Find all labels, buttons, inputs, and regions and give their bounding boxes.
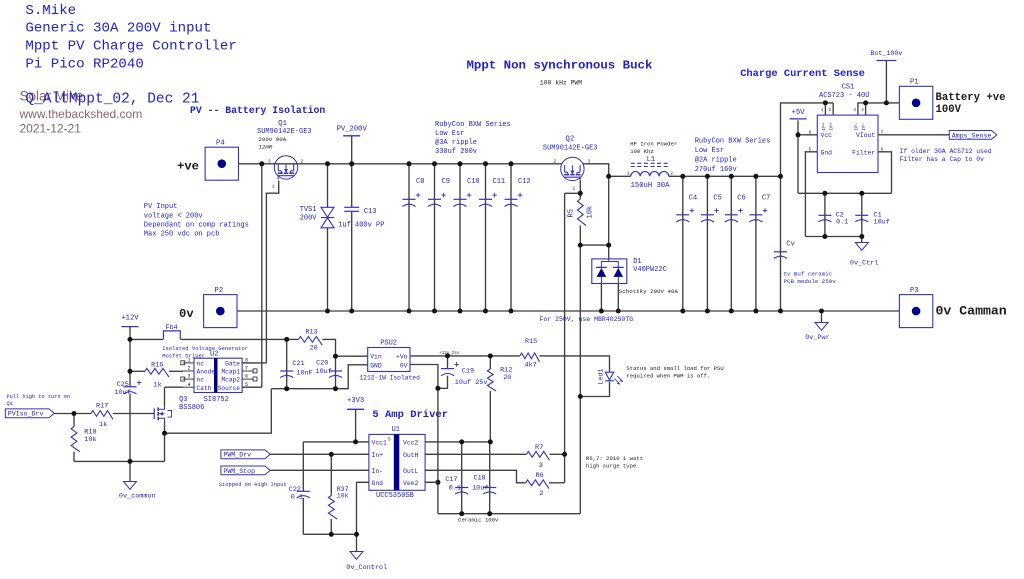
wire C25 bottom column [129, 394, 131, 462]
svg-text:3: 3 [588, 158, 591, 164]
junctions 0v rail [325, 309, 330, 314]
svg-text:C13: C13 [364, 208, 377, 216]
wire Led1 to source ref [580, 382, 609, 397]
wire PV_200V / C13 column [351, 136, 353, 208]
svg-text:200v 90A: 200v 90A [258, 136, 286, 143]
svg-text:R15: R15 [525, 338, 537, 346]
svg-text:5: 5 [245, 382, 248, 388]
transistor Q1 [274, 156, 297, 179]
svg-text:12mR: 12mR [258, 144, 272, 151]
svg-text:C8: C8 [416, 178, 424, 186]
svg-text:Amps_Sense: Amps_Sense [952, 132, 992, 139]
wire C1 C2 top rail [798, 192, 892, 194]
svg-text:Vcc2: Vcc2 [403, 440, 419, 447]
svg-text:5 Amp Driver: 5 Amp Driver [372, 409, 448, 421]
resistor R12 [487, 369, 496, 391]
svg-text:10k: 10k [587, 206, 595, 219]
wire C2 column [824, 193, 826, 236]
capacitor C6 [725, 214, 738, 216]
svg-text:BSS806: BSS806 [179, 404, 204, 412]
op-amp CS1 ACS723 [817, 115, 878, 172]
wire +3V3 stem [355, 409, 357, 442]
svg-text:0v: 0v [179, 307, 194, 321]
svg-text:S.Mike: S.Mike [25, 3, 76, 19]
junctions PV+ rail [259, 161, 264, 166]
svg-text:required when PWM is off.: required when PWM is off. [626, 373, 710, 380]
svg-text:In+: In+ [372, 452, 384, 459]
label Amps_Sense [949, 131, 997, 140]
svg-text:+3V3: +3V3 [347, 397, 364, 405]
wire PV+ rail [239, 163, 562, 165]
svg-text:Mppt PV Charge Controller: Mppt PV Charge Controller [25, 38, 236, 54]
wire C19 column [447, 356, 449, 369]
svg-text:Mppt Non synchronous Buck: Mppt Non synchronous Buck [467, 59, 653, 73]
label PWM_Stop [221, 466, 270, 475]
wire 0v_Ctrl stem [861, 237, 863, 243]
svg-text:R13: R13 [305, 329, 317, 337]
wire mcap return [165, 389, 272, 434]
regulator PSU2 [368, 348, 410, 372]
svg-text:6: 6 [881, 146, 884, 152]
ground 0v_common [124, 482, 137, 490]
svg-text:SUM90142E-GE3: SUM90142E-GE3 [257, 128, 312, 136]
svg-text:PCB module 250v: PCB module 250v [784, 278, 837, 285]
svg-text:R5: R5 [568, 209, 576, 217]
transistor Q2 [561, 157, 584, 180]
capacitor C22 [297, 490, 310, 492]
capacitor C9 [428, 198, 441, 200]
wire 0v_common stem [129, 461, 131, 481]
power +5V [790, 118, 807, 120]
svg-text:P3: P3 [910, 287, 919, 295]
svg-text:2: 2 [188, 366, 191, 372]
ground 0v_Control [350, 552, 363, 560]
svg-text:100 kHz PWM: 100 kHz PWM [540, 80, 582, 87]
capacitor C11 [479, 198, 492, 200]
diode TVS1 [321, 207, 334, 217]
wire C7 column [755, 176, 757, 311]
svg-text:3: 3 [268, 158, 271, 164]
wire 0v_Control stem [356, 534, 358, 551]
wire 0v_common rail [74, 460, 165, 462]
svg-text:Filter: Filter [852, 149, 875, 156]
svg-text:Status and small load for PSU: Status and small load for PSU [626, 365, 723, 372]
wire C5 column [706, 176, 708, 311]
wire U2 cath to Q3 drain [165, 386, 184, 388]
wire Cv column [780, 176, 782, 311]
capacitor C13 [344, 206, 359, 208]
svg-text:10uf: 10uf [874, 218, 890, 226]
svg-text:For 250V, use MBR40250TG: For 250V, use MBR40250TG [540, 316, 634, 323]
svg-text:Low Esr: Low Esr [435, 130, 464, 138]
ground 0v_Pwr [815, 323, 828, 331]
svg-text:If older 30A ACS712 used: If older 30A ACS712 used [900, 148, 992, 155]
wire C22 column [302, 442, 304, 491]
wire C6 column [730, 176, 732, 311]
wire +5V stem and leg [797, 120, 799, 193]
wire C17 column [461, 442, 463, 514]
svg-text:Low Esr: Low Esr [695, 147, 724, 155]
wire Q1 gate path [266, 181, 278, 363]
svg-text:Led1: Led1 [598, 369, 605, 385]
svg-text:C12: C12 [518, 178, 531, 186]
capacitor C5 [701, 214, 714, 216]
resistor R13 [299, 337, 323, 346]
wire TVS1 column [327, 164, 329, 208]
svg-text:Pull high to turn on: Pull high to turn on [7, 394, 71, 400]
transistor Q3 [153, 409, 155, 420]
wire R15 to Led1 [540, 356, 610, 372]
resistor R18 [71, 427, 80, 452]
svg-text:2021-12-21: 2021-12-21 [20, 121, 82, 135]
wire C9 column [434, 164, 436, 311]
resistor R5 [577, 199, 586, 226]
svg-text:0.1: 0.1 [291, 493, 303, 501]
svg-text:L1: L1 [647, 156, 656, 164]
svg-text:C7: C7 [762, 195, 770, 203]
svg-text:10k: 10k [84, 436, 96, 444]
svg-text:C9: C9 [442, 178, 450, 186]
wire CS1 Gnd leg [805, 152, 817, 237]
wire +12V stem column [129, 327, 131, 387]
capacitor C4 [676, 214, 689, 216]
svg-text:PV -- Battery Isolation: PV -- Battery Isolation [190, 105, 325, 116]
wire U1 OutH row to R7 [425, 453, 526, 455]
svg-text:nc: nc [197, 377, 205, 384]
svg-text:Cv: Cv [786, 241, 794, 249]
capacitor C20 [329, 370, 342, 372]
wire PWM_Drv to In+ [270, 453, 369, 455]
wire C12 column [510, 164, 512, 311]
svg-text:P1: P1 [910, 79, 919, 87]
svg-text:P4: P4 [216, 140, 225, 148]
junctions driver gen area [128, 337, 133, 342]
svg-text:IP-: IP- [861, 122, 867, 130]
resistor R17 [91, 411, 113, 420]
svg-text:GND: GND [370, 363, 382, 370]
svg-text:3: 3 [539, 462, 543, 470]
svg-text:0v_Ctrl: 0v_Ctrl [850, 260, 879, 268]
wire C10 column [459, 164, 461, 311]
svg-text:+ve: +ve [177, 159, 199, 173]
svg-text:RubyCon BXW Series: RubyCon BXW Series [695, 138, 771, 146]
junctions output rail [606, 174, 611, 179]
svg-text:Filter has a Cap to 0v: Filter has a Cap to 0v [900, 156, 985, 163]
svg-text:Source: Source [218, 385, 241, 392]
wire PWM_Stop to In- [270, 469, 369, 471]
svg-text:PWM_Stop: PWM_Stop [223, 468, 255, 475]
wire CS1 Vcc stub [798, 134, 817, 136]
svg-text:In-: In- [372, 468, 384, 475]
resistor R16 [145, 368, 169, 377]
svg-text:Dependant on comp ratings: Dependant on comp ratings [144, 221, 249, 229]
svg-text:Anode: Anode [197, 369, 216, 376]
svg-text:200V: 200V [300, 214, 318, 222]
label PWM_Drv [221, 450, 270, 459]
svg-text:Vcc: Vcc [821, 132, 833, 139]
svg-text:+5V: +5V [792, 109, 806, 117]
svg-text:Generic 30A 200V input: Generic 30A 200V input [25, 21, 211, 37]
svg-text:Cv Buf ceramic: Cv Buf ceramic [784, 270, 833, 277]
diode D1 [592, 259, 627, 284]
wire R16 row [130, 370, 145, 372]
svg-text:10uf 25v: 10uf 25v [455, 379, 488, 387]
svg-text:Fb4: Fb4 [166, 324, 178, 332]
wire CS1 VIout to Amps_Sense [878, 134, 949, 136]
wire C1 C2 bottom rail [805, 236, 861, 238]
svg-text:0V: 0V [400, 363, 408, 370]
svg-text:Battery +ve: Battery +ve [936, 92, 1006, 104]
wire source reference vertical [579, 245, 581, 514]
svg-text:Vee2: Vee2 [403, 480, 419, 487]
svg-text:2: 2 [539, 490, 543, 498]
svg-text:TVS1: TVS1 [300, 206, 317, 214]
svg-text:7: 7 [881, 129, 884, 135]
svg-text:D1: D1 [633, 258, 641, 266]
wire CS1 IP- legs to P1 [858, 103, 900, 115]
junctions gate source nodes [578, 191, 583, 196]
connector P3 [899, 295, 932, 328]
svg-text:R12: R12 [500, 366, 512, 374]
svg-text:Vin: Vin [370, 354, 382, 361]
svg-text:2: 2 [554, 158, 557, 164]
connector P1 [899, 86, 932, 119]
wire C1 column [861, 193, 863, 236]
svg-text:Vcc1: Vcc1 [372, 440, 388, 447]
wire C4 column [682, 176, 684, 311]
power PV_200V [343, 135, 360, 137]
svg-text:PSU2: PSU2 [380, 340, 397, 348]
op-amp U1 UCC5350SB [369, 434, 425, 490]
svg-text:OutH: OutH [403, 452, 419, 459]
svg-text:20: 20 [310, 344, 318, 352]
svg-text:0.1: 0.1 [449, 484, 461, 492]
svg-text:VIout: VIout [856, 132, 875, 139]
svg-text:Gnd: Gnd [372, 480, 384, 487]
wire U1 OutL row to R6 [425, 470, 526, 483]
wire Q1 source sense vertical [261, 164, 263, 387]
wire 0v_Pwr stem [821, 311, 823, 323]
svg-text:Bot_100v: Bot_100v [870, 50, 902, 58]
svg-text:U1: U1 [392, 426, 400, 434]
svg-text:Isolated Voltage Generator: Isolated Voltage Generator [162, 345, 248, 352]
svg-text:1212-1W Isolated: 1212-1W Isolated [359, 374, 420, 381]
svg-text:@3A ripple: @3A ripple [435, 139, 477, 147]
svg-text:150uH 30A: 150uH 30A [631, 182, 671, 190]
op-amp U2 SI8752 [194, 358, 242, 392]
wire source node to D1 [580, 244, 608, 246]
svg-text:Max 250 vdc on pcb: Max 250 vdc on pcb [144, 231, 220, 239]
svg-text:Q_AltMppt_02, Dec 21: Q_AltMppt_02, Dec 21 [25, 92, 199, 108]
svg-text:high surge type.: high surge type. [586, 463, 640, 470]
junctions 5A driver area [445, 353, 450, 358]
svg-text:nc: nc [197, 361, 205, 368]
resistor R15 [520, 353, 540, 362]
svg-text:5: 5 [809, 146, 812, 152]
wire R13 link [287, 338, 299, 340]
capacitor C1 [855, 214, 868, 216]
svg-text:7: 7 [245, 366, 248, 372]
svg-text:IP-: IP- [853, 122, 859, 130]
svg-text:C10: C10 [467, 178, 480, 186]
svg-text:1k: 1k [99, 421, 107, 429]
svg-text:C25: C25 [117, 381, 129, 389]
svg-text:5: 5 [388, 436, 391, 442]
power Bot_100v [876, 60, 896, 62]
wire PSU2 Vin stub [336, 355, 368, 357]
svg-text:R7: R7 [535, 444, 543, 452]
svg-text:C4: C4 [689, 195, 697, 203]
wire Q2 drain-source to L1 [583, 164, 609, 177]
wire C20 C21 bottom rail [271, 388, 335, 390]
svg-text:0v Camman: 0v Camman [936, 304, 1007, 319]
svg-text:Ceramic 100v: Ceramic 100v [458, 516, 499, 523]
capacitor C12 [505, 198, 518, 200]
svg-text:UCC5350SB: UCC5350SB [376, 492, 414, 500]
capacitor C25 [124, 386, 137, 388]
svg-text:10uf: 10uf [316, 368, 332, 376]
svg-text:C20: C20 [316, 360, 328, 368]
svg-text:SI8752: SI8752 [204, 396, 229, 404]
svg-text:voltage < 200v: voltage < 200v [144, 212, 203, 220]
capacitor C10 [454, 198, 467, 200]
capacitor C17 [455, 487, 468, 489]
wire PSU2 GND loop [336, 365, 368, 389]
resistor R37 [328, 496, 337, 520]
svg-text:0v_common: 0v_common [119, 493, 156, 501]
svg-text:HF Iron Powder: HF Iron Powder [630, 140, 677, 147]
wire buck node to L1 pin1 [609, 175, 631, 177]
wire PSU2 0V leg [410, 365, 438, 514]
capacitor C2 [818, 214, 831, 216]
wire U1 Vcc1 row [303, 441, 369, 443]
wire U1 Gnd leg [357, 482, 369, 534]
svg-text:+12v_Iso: +12v_Iso [439, 352, 460, 356]
wire 0v rail [237, 310, 899, 312]
svg-text:Stopped on High Input: Stopped on High Input [219, 482, 287, 488]
wire CS1 IP+ pin legs [824, 103, 826, 115]
wire output rail riser to CS1 [781, 103, 834, 176]
inductor L1 [631, 172, 669, 177]
wire R37 column [330, 454, 332, 495]
wire C8 column [408, 164, 410, 311]
svg-text:Q1: Q1 [7, 401, 13, 407]
svg-text:PV Input: PV Input [144, 203, 178, 211]
svg-text:330uf 200v: 330uf 200v [435, 148, 477, 156]
svg-text:C17: C17 [445, 476, 457, 484]
wire Vee2 rail [438, 513, 580, 515]
svg-text:Q1: Q1 [278, 120, 287, 128]
svg-text:2: 2 [301, 158, 304, 164]
svg-text:C6: C6 [737, 195, 745, 203]
svg-text:8: 8 [809, 129, 812, 135]
svg-text:PVIso_Drv: PVIso_Drv [8, 411, 44, 418]
svg-text:10k: 10k [337, 493, 349, 500]
svg-text:20: 20 [503, 374, 511, 382]
svg-text:C18: C18 [474, 474, 486, 482]
wire PVIso to R17 to Q3 gate [54, 413, 91, 415]
svg-text:IP+: IP+ [821, 122, 827, 131]
wire 0v_Control rail [303, 533, 356, 535]
wire U1 Vcc2 row [425, 441, 490, 443]
wire CS1 Filter loop [878, 152, 892, 194]
svg-text:RubyCon BXW Series: RubyCon BXW Series [435, 121, 511, 129]
svg-text:0v_Pwr: 0v_Pwr [805, 334, 829, 342]
resistor R7 [526, 451, 549, 460]
inductor Fb4 [164, 331, 181, 339]
svg-text:C5: C5 [713, 195, 721, 203]
svg-text:R17: R17 [96, 403, 108, 411]
svg-text:IP+: IP+ [829, 122, 835, 131]
svg-text:Schottky 200V 40A: Schottky 200V 40A [619, 288, 679, 295]
wire Q2 gate drive vertical [564, 193, 566, 483]
wire Q3 source column [164, 422, 166, 462]
svg-text:www.thebackshed.com: www.thebackshed.com [19, 107, 143, 121]
connector P2 [204, 295, 237, 328]
svg-text:10uf: 10uf [472, 484, 488, 492]
svg-text:ACS723 - 40U: ACS723 - 40U [819, 92, 869, 100]
svg-text:R6,7: 2010 1 watt: R6,7: 2010 1 watt [586, 455, 643, 462]
diode Led1 [605, 372, 614, 380]
svg-text:Gate: Gate [225, 361, 240, 368]
svg-text:Charge Current Sense: Charge Current Sense [740, 68, 865, 80]
svg-text:R6: R6 [536, 472, 544, 480]
wire U1 Vee2 stub [425, 481, 438, 483]
svg-text:1: 1 [272, 184, 275, 190]
svg-text:R16: R16 [151, 362, 163, 370]
wire C21 column [286, 339, 288, 388]
junctions CS1 area [823, 100, 828, 105]
wire C11 column [485, 164, 487, 311]
power +12V [122, 326, 139, 328]
svg-text:3: 3 [188, 374, 191, 380]
ground 0v_Ctrl [855, 243, 868, 251]
svg-text:4k7: 4k7 [525, 361, 537, 369]
svg-text:CS1: CS1 [842, 83, 855, 91]
wire C18 column [489, 442, 491, 514]
svg-text:P2: P2 [215, 287, 224, 295]
svg-text:10nF: 10nF [296, 370, 312, 378]
svg-text:100 Khz: 100 Khz [630, 148, 654, 155]
svg-text:1uf 400v PP: 1uf 400v PP [338, 221, 384, 229]
svg-text:8: 8 [245, 358, 248, 364]
wire R18 column [73, 414, 75, 427]
wire Fb4 feed [130, 338, 163, 340]
svg-text:C19: C19 [462, 368, 474, 376]
svg-text:0.1: 0.1 [836, 218, 848, 226]
svg-text:4: 4 [188, 382, 191, 388]
wire C20 column [335, 356, 337, 389]
capacitor C7 [749, 214, 762, 216]
wire R5 bottom to source node [579, 226, 581, 246]
wire R12 column [489, 356, 491, 369]
svg-text:+Vo: +Vo [396, 354, 408, 361]
svg-text:+12V: +12V [121, 315, 139, 323]
wire L1 pin2 to output rail [669, 175, 781, 177]
svg-text:V40PW22C: V40PW22C [633, 266, 667, 274]
svg-text:270uf 160v: 270uf 160v [695, 166, 737, 174]
svg-text:100V: 100V [936, 104, 962, 116]
svg-text:10uf: 10uf [115, 389, 131, 397]
svg-text:Mcap1: Mcap1 [221, 369, 240, 376]
label PVIso_Drv [5, 409, 54, 418]
svg-text:Cath: Cath [197, 385, 212, 392]
svg-text:C21: C21 [292, 360, 304, 368]
capacitor C19 [441, 368, 454, 370]
svg-text:SUM90142E-GE3: SUM90142E-GE3 [543, 144, 598, 152]
svg-text:6: 6 [245, 374, 248, 380]
svg-text:PWM_Drv: PWM_Drv [223, 452, 251, 459]
